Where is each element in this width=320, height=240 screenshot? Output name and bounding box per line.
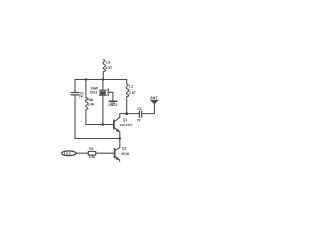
svg-text:2SC2407: 2SC2407 [120,123,133,127]
svg-text:9018: 9018 [121,152,129,156]
svg-text:R1: R1 [89,147,93,151]
wire: C1 bottom down and right to emitter node [75,95,120,138]
wire: RFC bottom to Q1 base [86,110,114,125]
wire: RFC top lead [85,80,87,98]
crystal X013 (SAW resonator) [99,89,108,96]
svg-text:ANT: ANT [150,96,158,100]
antenna ANT [151,100,158,104]
wire: collector node line [120,113,139,115]
svg-text:4.5T: 4.5T [105,66,113,70]
wire: Q2 base wire [96,152,115,154]
transistor Q2 (9018) [115,148,120,162]
inductor L1 (2.6T) [126,80,129,114]
wire: crystal bottom lead to base node [102,95,104,124]
inductor L6 (supply choke, 4.5T) [103,60,106,80]
wire: oval terminal to resistor [76,152,88,154]
svg-text:RBL: RBL [87,98,94,102]
svg-text:7P: 7P [79,95,84,99]
capacitor C1 7P [71,93,79,95]
wire: C3 to antenna [142,104,155,114]
svg-text:L6: L6 [106,61,110,65]
junction: L1 bottom node [125,112,128,115]
label L6 4.5T [105,61,113,70]
label R1 3.3k [89,147,95,159]
transistor Q1 (2SC2407) [114,114,120,148]
wire: crystal top lead [102,80,104,91]
inductor RBL (RF choke 1.4uH) [85,97,88,109]
svg-text:C3: C3 [137,107,141,111]
svg-text:3.3k: 3.3k [89,155,95,159]
wire: crystal case to ground [108,92,113,100]
label Q1 2SC2407 [120,118,133,127]
svg-text:7P: 7P [137,119,142,123]
capacitor C3 7P (series to antenna) [139,111,141,117]
wire: top supply rail [75,79,127,81]
input terminal (LED oval) [62,151,76,156]
label L1 2.6T [129,85,137,95]
svg-text:150: 150 [64,152,72,156]
svg-text:2.6T: 2.6T [129,91,137,95]
resistor R1 3.3k [88,151,95,155]
svg-text:1.4H: 1.4H [88,103,95,107]
junction: feedback / emitter line [119,137,121,139]
junction: RFC / rail [85,78,87,80]
svg-text:X013: X013 [90,91,98,95]
svg-text:L1: L1 [129,85,133,89]
label RBL 1.4H [87,98,95,107]
label C3 7P [137,107,142,123]
wire: rail left corner down to C1 [74,80,76,93]
label Q2 9018 [121,146,129,156]
svg-text:Q2: Q2 [122,146,127,150]
svg-text:Q1: Q1 [123,118,128,122]
junction: supply stub / rail [102,78,104,80]
label SAW X013 [90,87,99,95]
junction: crystal / base wire node [102,123,105,126]
ground GND1 [109,101,117,103]
svg-text:GND1: GND1 [108,103,117,107]
label C1 7P [79,91,84,99]
